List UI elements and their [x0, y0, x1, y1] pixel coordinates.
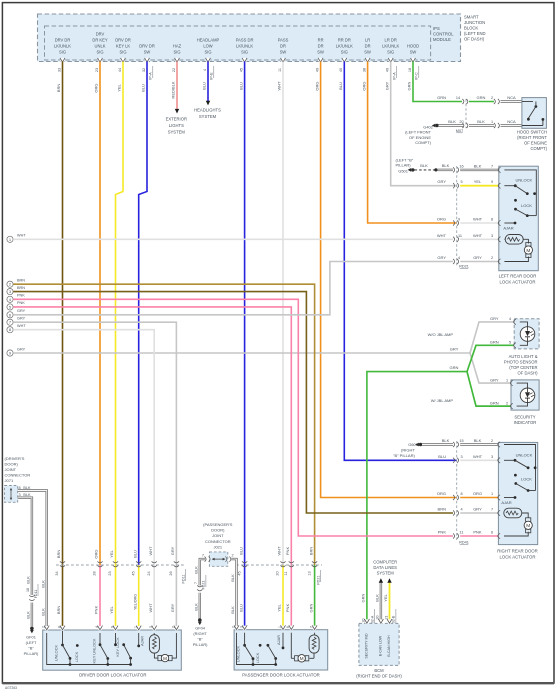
svg-text:(DRIVER'S: (DRIVER'S [5, 456, 25, 461]
svg-text:HOOD SWITCH: HOOD SWITCH [517, 129, 547, 134]
wire BLK 16 / BLK 7 to left rear actuator [438, 163, 499, 173]
svg-text:2: 2 [491, 96, 493, 100]
svg-text:UNLOCK: UNLOCK [516, 452, 533, 457]
svg-text:LEFT REAR DOOR: LEFT REAR DOOR [499, 273, 537, 278]
svg-text:LK/UNLK: LK/UNLK [382, 44, 399, 49]
svg-text:ORG: ORG [94, 83, 99, 92]
svg-text:44: 44 [118, 68, 122, 72]
svg-text:WHT: WHT [17, 324, 26, 328]
wire WHT off-page 1 to left rear motor row [7, 234, 453, 243]
svg-text:B-CAN HIGH: B-CAN HIGH [387, 635, 391, 657]
wire BLU pin 10 / YEL to driver door lock actuator [131, 62, 147, 631]
svg-text:LOW: LOW [203, 44, 212, 49]
svg-text:34: 34 [55, 571, 59, 575]
svg-text:2: 2 [231, 626, 235, 628]
svg-text:COMPT): COMPT) [415, 140, 431, 145]
svg-text:BRN: BRN [438, 507, 447, 512]
svg-text:ORG: ORG [437, 217, 446, 222]
svg-text:PILLAR): PILLAR) [193, 642, 208, 647]
svg-text:GRY: GRY [473, 255, 482, 260]
wire GRY 5 / YEL 9 unlock row left rear [453, 179, 499, 188]
svg-text:SYSTEM: SYSTEM [199, 114, 217, 119]
wire PNK off-page 5 to passenger door connector FD21 [7, 301, 294, 630]
svg-text:11: 11 [278, 68, 282, 72]
connector FD21 passenger door [236, 565, 322, 585]
wire ORG 9 / WHT 8 ajar row left rear [453, 217, 499, 226]
svg-text:M: M [163, 656, 167, 661]
svg-text:SW: SW [144, 50, 151, 55]
svg-text:PHOTO SENSOR: PHOTO SENSOR [504, 360, 538, 365]
svg-text:COMPUTER: COMPUTER [373, 559, 397, 564]
connector RD41 right rear door [457, 441, 469, 545]
svg-text:RD21: RD21 [459, 265, 469, 269]
svg-text:WHT: WHT [148, 546, 153, 556]
svg-text:IP-E: IP-E [210, 72, 214, 80]
svg-text:"B": "B" [197, 637, 203, 642]
svg-text:13: 13 [307, 571, 311, 575]
svg-text:45: 45 [131, 571, 135, 575]
svg-text:UNLOCK: UNLOCK [236, 645, 241, 662]
svg-text:40: 40 [339, 68, 343, 72]
svg-text:20: 20 [276, 571, 280, 575]
svg-text:2: 2 [491, 256, 493, 260]
svg-text:LOCK ACTUATOR: LOCK ACTUATOR [500, 554, 536, 559]
svg-text:IP-A: IP-A [392, 72, 396, 80]
svg-text:30: 30 [376, 616, 380, 620]
svg-text:(TOP CENTER: (TOP CENTER [509, 365, 537, 370]
svg-text:GRY: GRY [437, 255, 446, 260]
svg-text:WHT: WHT [473, 233, 483, 238]
svg-text:GRY: GRY [17, 317, 26, 321]
svg-text:BLK: BLK [420, 163, 428, 168]
svg-text:DR: DR [318, 44, 324, 49]
svg-text:BLU: BLU [202, 82, 207, 90]
svg-text:GRN: GRN [308, 603, 313, 612]
svg-text:BRN: BRN [56, 84, 61, 93]
wire BLK from J021 pin 7 to ground GF04 [194, 559, 207, 618]
wire GRY 4 / GRY 2 motor return row left rear [437, 255, 498, 264]
wire GRY off-page 9 to indicator fork [7, 322, 514, 383]
svg-text:BLU: BLU [238, 82, 243, 90]
svg-text:OF DASH): OF DASH) [464, 37, 485, 42]
svg-text:28: 28 [93, 571, 97, 575]
svg-text:"B": "B" [28, 646, 34, 651]
wire BRN off-page 2 to passenger door connector FD21 [7, 279, 317, 631]
wire BLU pin 45 to passenger door lock actuator [237, 62, 247, 631]
wire YEL pin 44 to driver door lock actuator [108, 62, 123, 631]
svg-text:LOCK: LOCK [74, 651, 79, 662]
svg-text:WHT: WHT [17, 234, 26, 238]
svg-text:(PASSENGER'S: (PASSENGER'S [203, 522, 233, 527]
svg-text:BLU: BLU [338, 82, 343, 90]
svg-text:M: M [300, 656, 304, 661]
svg-text:DRV: DRV [96, 32, 105, 37]
smart junction block label [464, 15, 486, 42]
svg-text:GRN: GRN [450, 365, 459, 370]
svg-text:RR: RR [318, 38, 324, 43]
svg-text:GRY: GRY [490, 377, 499, 382]
svg-text:YEL: YEL [277, 603, 282, 611]
svg-text:WHT: WHT [277, 81, 282, 91]
ground G501 left B pillar [396, 157, 438, 173]
svg-text:PNK: PNK [285, 604, 290, 613]
svg-text:J021: J021 [213, 545, 222, 550]
svg-text:GRN: GRN [490, 400, 499, 405]
svg-text:(LEFT END: (LEFT END [464, 31, 486, 36]
svg-text:6: 6 [286, 626, 290, 628]
svg-text:J071: J071 [5, 478, 14, 483]
svg-text:SIG: SIG [341, 50, 348, 55]
svg-text:PASS: PASS [278, 38, 289, 43]
svg-text:GRY: GRY [170, 546, 175, 555]
svg-text:UNLK: UNLK [95, 44, 106, 49]
wire ORG 8 / ORG 1 ajar row right rear [453, 491, 498, 500]
svg-text:4: 4 [458, 256, 460, 260]
svg-text:BLK: BLK [194, 603, 199, 611]
svg-text:3: 3 [18, 493, 20, 497]
svg-text:LIGHTS: LIGHTS [169, 123, 184, 128]
svg-text:SECURITY IND: SECURITY IND [365, 633, 369, 659]
wire GRN from BCM to indicator fork [361, 345, 515, 623]
svg-text:LR: LR [365, 38, 370, 43]
svg-text:7: 7 [310, 626, 314, 628]
svg-text:GRY: GRY [490, 316, 499, 321]
svg-text:HEADLAMP: HEADLAMP [197, 38, 220, 43]
svg-text:W/ JBL AMP: W/ JBL AMP [431, 398, 454, 403]
svg-text:YEL: YEL [383, 593, 388, 601]
svg-text:OF ENGINE: OF ENGINE [409, 135, 431, 140]
computer data lines system label [373, 559, 397, 575]
svg-text:FD21: FD21 [317, 575, 321, 584]
svg-text:BLK: BLK [474, 163, 482, 168]
wire WHT 11 / WHT 3 motor row left rear [437, 233, 499, 242]
svg-text:14: 14 [456, 96, 460, 100]
auto light and photo sensor D1 [490, 316, 539, 375]
svg-text:9: 9 [110, 626, 114, 628]
svg-text:PILLAR): PILLAR) [396, 163, 412, 168]
svg-text:9: 9 [458, 218, 460, 222]
svg-text:EXTERIOR: EXTERIOR [166, 117, 187, 122]
svg-text:DATA LINES: DATA LINES [373, 565, 397, 570]
svg-text:SW: SW [364, 50, 371, 55]
svg-text:45: 45 [239, 68, 243, 72]
svg-text:GRN: GRN [490, 340, 499, 345]
svg-text:SW: SW [280, 50, 287, 55]
svg-text:5: 5 [460, 180, 462, 184]
svg-text:BLU: BLU [238, 604, 243, 612]
svg-text:11: 11 [458, 234, 462, 238]
svg-text:ORG: ORG [473, 491, 482, 496]
ground G601 right B pillar [393, 442, 422, 458]
svg-text:6: 6 [491, 531, 493, 535]
svg-text:4: 4 [203, 69, 207, 71]
svg-text:PNK: PNK [17, 294, 25, 298]
svg-text:DOOR): DOOR) [5, 462, 19, 467]
SJB pin row with pin numbers [57, 58, 419, 80]
svg-text:15: 15 [459, 439, 463, 443]
ground GF04 right B pillar [193, 618, 208, 647]
svg-text:JUNCTION: JUNCTION [464, 20, 485, 25]
svg-text:ORG: ORG [314, 81, 319, 90]
wire GRN pin 16 to hood switch [407, 62, 462, 102]
svg-text:LK/UNLK: LK/UNLK [236, 44, 253, 49]
svg-text:4: 4 [95, 626, 99, 628]
svg-text:BLU: BLU [132, 550, 137, 558]
wire WHT pin 31 / YEL to passenger door lock actuator [276, 62, 286, 631]
svg-text:PASSENGER DOOR LOCK ACTUATOR: PASSENGER DOOR LOCK ACTUATOR [242, 672, 320, 677]
svg-text:OF DASH): OF DASH) [517, 371, 538, 376]
svg-text:BLK: BLK [194, 566, 199, 574]
svg-text:KEY UNLOCK: KEY UNLOCK [91, 638, 96, 663]
svg-text:(LEFT "B": (LEFT "B" [396, 157, 414, 162]
svg-text:1: 1 [491, 492, 493, 496]
svg-text:IP-A: IP-A [149, 72, 153, 80]
svg-text:BCM: BCM [374, 668, 384, 673]
svg-text:CONNECTOR: CONNECTOR [5, 473, 31, 478]
svg-text:WHT: WHT [437, 233, 447, 238]
wire BLK 1 / NCA to hood switch [469, 119, 522, 128]
svg-text:(RIGHT: (RIGHT [401, 448, 415, 453]
svg-text:LK/UNLK: LK/UNLK [336, 44, 353, 49]
svg-text:OF ENGINE: OF ENGINE [524, 140, 547, 145]
svg-text:PNK: PNK [17, 301, 25, 305]
svg-text:FD11: FD11 [34, 590, 38, 599]
svg-text:3: 3 [491, 234, 493, 238]
svg-text:LOCK: LOCK [521, 476, 532, 481]
svg-text:COMPT): COMPT) [530, 146, 547, 151]
svg-text:BRN: BRN [17, 279, 25, 283]
svg-text:26: 26 [169, 571, 173, 575]
svg-text:PILLAR): PILLAR) [24, 651, 39, 656]
svg-text:M07: M07 [456, 129, 463, 133]
security indicator D2 [490, 377, 539, 424]
svg-text:BRN: BRN [56, 606, 61, 615]
svg-text:DR: DR [365, 44, 371, 49]
svg-text:21: 21 [384, 616, 388, 620]
svg-text:AJAR: AJAR [501, 500, 511, 505]
svg-text:NCA: NCA [507, 119, 516, 124]
svg-text:SIG: SIG [173, 50, 180, 55]
wire GRY off-page 7 to driver door connector FD11 [7, 317, 179, 631]
svg-text:PASS DR: PASS DR [236, 38, 254, 43]
svg-text:9: 9 [491, 180, 493, 184]
svg-text:WHT: WHT [473, 217, 483, 222]
svg-text:2: 2 [171, 626, 175, 628]
svg-text:HAZ: HAZ [173, 44, 182, 49]
svg-text:8: 8 [491, 218, 493, 222]
svg-text:UNLOCK: UNLOCK [515, 178, 532, 183]
svg-text:2: 2 [506, 401, 508, 405]
svg-text:LOCK ACTUATOR: LOCK ACTUATOR [500, 279, 536, 284]
svg-text:3: 3 [460, 455, 462, 459]
svg-text:GRY: GRY [450, 347, 459, 352]
svg-text:23: 23 [95, 68, 99, 72]
svg-text:ORG: ORG [437, 491, 446, 496]
connector M07 on hood switch wires [456, 99, 468, 133]
svg-text:JOINT: JOINT [212, 533, 224, 538]
svg-text:BLK: BLK [230, 606, 235, 614]
svg-text:BLK: BLK [477, 119, 485, 124]
svg-text:49: 49 [386, 68, 390, 72]
svg-text:GRY: GRY [17, 347, 26, 351]
svg-text:BLK: BLK [474, 438, 482, 443]
hood switch S1 [517, 98, 548, 151]
svg-text:PNK: PNK [438, 530, 447, 535]
svg-text:HEADLIGHTS: HEADLIGHTS [194, 108, 221, 113]
wire BLK 15 / BLK 2 to right rear actuator [422, 438, 498, 447]
svg-text:JOINT: JOINT [5, 467, 17, 472]
svg-text:BLK: BLK [23, 493, 31, 497]
wire BLU 3 / WHT 3 unlock row right rear [453, 454, 498, 463]
svg-text:4: 4 [460, 508, 462, 512]
svg-text:AGT263: AGT263 [5, 686, 17, 690]
svg-text:INDICATOR: INDICATOR [514, 420, 537, 425]
svg-text:BLK: BLK [40, 580, 45, 588]
wire WHT off-page 8 to driver door connector FD11 [7, 324, 157, 630]
svg-text:SECURITY: SECURITY [514, 414, 535, 419]
svg-text:G501: G501 [398, 168, 409, 173]
svg-text:BLK: BLK [26, 611, 31, 619]
svg-text:GRY: GRY [17, 309, 26, 313]
svg-text:ORG: ORG [361, 81, 366, 90]
wire RED/BLK pin 22 to exterior lights system [166, 62, 187, 135]
wire YEL B-CAN HIGH to computer data lines [383, 578, 396, 626]
svg-text:32: 32 [142, 68, 146, 72]
joint connector J071 drivers door [5, 456, 32, 502]
svg-text:SYSTEM: SYSTEM [168, 130, 186, 135]
svg-text:SIG: SIG [119, 50, 126, 55]
svg-text:PNK: PNK [473, 530, 482, 535]
svg-text:SIG: SIG [96, 50, 103, 55]
svg-text:BLK: BLK [448, 119, 456, 124]
svg-text:WHT: WHT [277, 546, 282, 556]
svg-text:2: 2 [491, 439, 493, 443]
BCM body control module [356, 619, 402, 679]
svg-text:GRY: GRY [437, 179, 446, 184]
svg-text:DRIVER DOOR LOCK ACTUATOR: DRIVER DOOR LOCK ACTUATOR [79, 672, 146, 677]
svg-text:BLK: BLK [230, 574, 235, 582]
svg-text:2: 2 [42, 626, 46, 628]
svg-text:PNK: PNK [285, 547, 290, 556]
wire BLK from J071 pin 8 to driver actuator [18, 491, 47, 631]
wire BLK from J021 pin 2 to passenger actuator [230, 559, 236, 630]
ground GF01 left B pillar [24, 627, 39, 657]
svg-text:GRY: GRY [473, 507, 482, 512]
svg-text:1: 1 [278, 626, 282, 628]
svg-text:FD11: FD11 [182, 574, 186, 583]
svg-text:49: 49 [315, 68, 319, 72]
svg-text:BLK: BLK [40, 608, 45, 616]
svg-text:3: 3 [240, 626, 244, 628]
svg-text:(RIGHT FRONT: (RIGHT FRONT [517, 135, 547, 140]
svg-text:YEL: YEL [109, 605, 114, 613]
svg-text:SMART: SMART [464, 15, 479, 20]
svg-text:DOOR): DOOR) [211, 528, 225, 533]
joint connector J021 passengers door [202, 522, 234, 567]
svg-text:GRY: GRY [384, 81, 389, 90]
svg-text:SYSTEM: SYSTEM [377, 570, 395, 575]
svg-text:DRV DR: DRV DR [115, 38, 131, 43]
svg-text:FD21: FD21 [202, 581, 206, 590]
svg-text:PNK: PNK [94, 606, 99, 615]
svg-text:YEL/ORG: YEL/ORG [133, 594, 137, 610]
svg-text:"B" PILLAR): "B" PILLAR) [393, 453, 415, 458]
svg-text:(LEFT: (LEFT [26, 640, 37, 645]
svg-text:7: 7 [491, 164, 493, 168]
wire BLK B-CAN LOW to computer data lines [370, 578, 383, 626]
wire PNK off-page 4 to right rear motor return row [7, 294, 453, 536]
svg-text:LK/UNLK: LK/UNLK [54, 44, 71, 49]
svg-text:MODULE: MODULE [433, 37, 451, 42]
svg-text:BRN: BRN [17, 286, 25, 290]
svg-text:M: M [526, 248, 530, 254]
svg-text:45: 45 [237, 571, 241, 575]
svg-text:LOCK: LOCK [521, 203, 532, 208]
option label W/ JBL AMP [431, 398, 454, 403]
svg-text:3: 3 [491, 455, 493, 459]
svg-text:BRN: BRN [56, 550, 61, 559]
svg-text:SW: SW [410, 50, 417, 55]
svg-text:LR DR: LR DR [385, 38, 397, 43]
svg-text:AUTO LIGHT &: AUTO LIGHT & [509, 354, 538, 359]
svg-text:22: 22 [172, 68, 176, 72]
svg-text:KEY LOCK: KEY LOCK [115, 637, 120, 657]
svg-text:GRN: GRN [477, 95, 486, 100]
svg-text:SIG: SIG [241, 50, 248, 55]
svg-text:AJAR: AJAR [139, 636, 144, 646]
svg-text:33: 33 [57, 68, 61, 72]
connector FD11 driver door [56, 565, 186, 584]
svg-text:1: 1 [134, 626, 138, 628]
driver door lock actuator A3 [42, 626, 182, 678]
wire GRY pin 49 to left rear door unlock row [384, 62, 456, 186]
svg-text:7: 7 [202, 554, 204, 558]
svg-text:ORG: ORG [94, 549, 99, 558]
left rear door lock actuator A1 [498, 166, 538, 284]
svg-text:BLU: BLU [238, 547, 243, 555]
wire ORG pin 8 to left rear door ajar row [361, 62, 456, 224]
svg-text:BLOCK: BLOCK [464, 26, 478, 31]
svg-text:DRV DR: DRV DR [139, 44, 155, 49]
svg-text:WHT: WHT [148, 603, 153, 613]
svg-text:38: 38 [362, 68, 366, 72]
wire ORG pin 20 / PNK to driver door lock actuator [93, 62, 103, 631]
svg-text:(RIGHT: (RIGHT [193, 631, 207, 636]
wire BRN off-page 3 to right rear motor row [7, 286, 453, 513]
svg-text:IP-C: IP-C [415, 72, 419, 80]
wire ORG pin 49 to right rear door ajar row [314, 62, 456, 498]
svg-text:KEY LK: KEY LK [116, 44, 131, 49]
svg-text:5: 5 [509, 341, 511, 345]
connector RD21 left rear door [457, 166, 469, 269]
svg-text:2: 2 [232, 554, 234, 558]
svg-text:7: 7 [491, 508, 493, 512]
svg-text:23: 23 [108, 571, 112, 575]
svg-text:RIGHT REAR DOOR: RIGHT REAR DOOR [497, 548, 538, 553]
option label W/O JBL AMP [428, 332, 454, 337]
svg-text:8: 8 [460, 492, 462, 496]
svg-text:7: 7 [194, 582, 198, 584]
svg-text:NCA: NCA [507, 95, 516, 100]
svg-text:BLK: BLK [442, 438, 450, 443]
svg-text:RD41: RD41 [459, 541, 469, 545]
svg-text:DR KEY: DR KEY [92, 38, 108, 43]
svg-text:LOCK: LOCK [255, 652, 260, 663]
svg-text:GF04: GF04 [195, 625, 206, 630]
svg-text:AJAR: AJAR [276, 635, 281, 645]
svg-text:SIG: SIG [204, 50, 211, 55]
IPS control module U1 inside smart junction block [38, 14, 461, 62]
